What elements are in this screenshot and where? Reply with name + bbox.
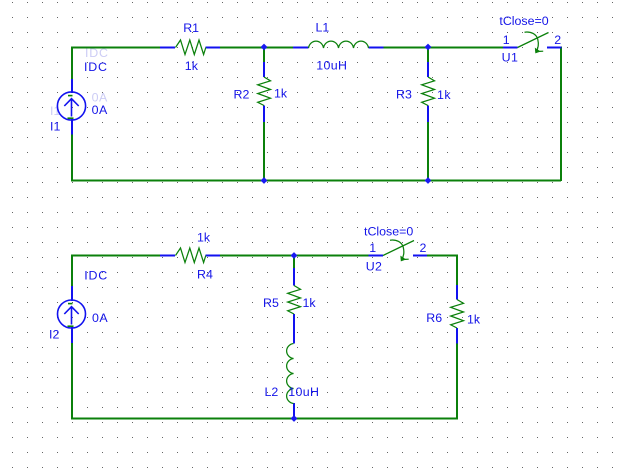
- svg-text:I2: I2: [49, 328, 59, 342]
- I2 minus tick: [68, 303, 73, 305]
- wire left vertical upper (corner to I2 top): [71, 255, 73, 287]
- svg-text:R6: R6: [426, 311, 442, 325]
- inductor L1: [293, 41, 384, 48]
- R5 pin stub bottom: [293, 314, 295, 329]
- junction node A (R2 top): [261, 44, 268, 51]
- U2 pin 2 stub: [413, 255, 427, 257]
- svg-text:IDC: IDC: [85, 46, 109, 60]
- L1 pin stub left: [293, 47, 309, 49]
- wire U2 pin 2 to right corner: [427, 255, 458, 257]
- U2 arrowhead dash: [405, 258, 409, 260]
- current source I1: [50, 79, 86, 135]
- R5 zigzag body: [288, 286, 301, 315]
- R6 pin stub bottom: [456, 328, 458, 344]
- wire R3 branch lower: [427, 121, 429, 181]
- U2 close-action arc: [390, 240, 404, 260]
- svg-text:tClose=0: tClose=0: [499, 14, 548, 28]
- resistor R4: [160, 248, 220, 263]
- svg-text:1k: 1k: [197, 231, 211, 245]
- wire left vertical lower (I1 bottom to bottom rail): [71, 134, 73, 182]
- U2 pin 1 stub: [369, 255, 384, 257]
- wire top-left horizontal (I2 to R4): [72, 255, 160, 257]
- R3 pin stub top: [427, 62, 429, 77]
- I2 arrow head chevron: [64, 307, 78, 314]
- svg-text:R4: R4: [197, 268, 213, 282]
- inductor L2: [287, 328, 294, 418]
- I1 body circle: [57, 92, 85, 120]
- svg-text:2: 2: [420, 241, 427, 255]
- wire right vertical lower (R6 bottom to bottom rail): [456, 343, 458, 420]
- R6 pin stub top: [456, 285, 458, 300]
- resistor R2: [258, 62, 271, 122]
- U1 pin 2 stub: [547, 47, 562, 49]
- wire right vertical upper (corner to R6 top): [456, 255, 458, 286]
- wire right vertical (U1 pin 2 down to bottom rail): [560, 47, 562, 182]
- current source I2: [58, 286, 86, 343]
- U1 pin 1 stub: [503, 47, 518, 49]
- R5 pin stub top: [293, 268, 295, 286]
- R2 zigzag body: [258, 77, 271, 106]
- L1 humps body: [309, 41, 369, 48]
- I1 minus tick: [68, 95, 73, 97]
- R1 zigzag body: [176, 40, 206, 55]
- I1 pin 2 stub (bottom): [71, 119, 73, 135]
- svg-text:1: 1: [503, 33, 510, 47]
- R3 zigzag body: [422, 77, 435, 106]
- I1 arrow head chevron: [64, 99, 78, 106]
- R3 pin stub bottom: [427, 106, 429, 123]
- I2 arrow shaft: [71, 307, 73, 325]
- U1 arc arrowhead: [535, 48, 540, 53]
- wire left vertical upper (I1 top to corner): [71, 47, 73, 80]
- resistor R1: [160, 40, 220, 55]
- svg-text:L1: L1: [316, 21, 330, 35]
- svg-text:U2: U2: [366, 260, 383, 274]
- junction node B (R3 top): [425, 44, 432, 51]
- wire R4 to U2 pin 1 (through node E): [220, 255, 369, 257]
- switch U2: [369, 240, 428, 261]
- I2 plus tick: [68, 325, 74, 327]
- R4 zigzag body: [176, 248, 206, 263]
- svg-text:R3: R3: [396, 88, 412, 102]
- wire top-left horizontal (node from I1 to R1): [72, 47, 160, 49]
- svg-text:10uH: 10uH: [288, 385, 319, 399]
- R6 zigzag body: [451, 300, 464, 329]
- svg-text:L2: L2: [265, 385, 279, 399]
- U1 close-action arc: [525, 32, 539, 52]
- R4 pin stub right: [206, 255, 221, 257]
- I1 pin 1 stub (top): [71, 79, 73, 93]
- svg-text:U1: U1: [502, 51, 519, 65]
- wire R2 branch upper stub: [263, 48, 265, 64]
- resistor R6: [451, 285, 464, 344]
- wire left vertical lower (I2 bottom to bottom rail): [71, 343, 73, 420]
- resistor R5: [288, 268, 301, 329]
- svg-text:I1: I1: [50, 119, 60, 133]
- wire L1 to U1 pin 1: [383, 47, 503, 49]
- junction node F (L2 bottom): [291, 415, 298, 422]
- svg-text:1k: 1k: [185, 59, 199, 73]
- R1 pin stub left: [160, 47, 175, 49]
- switch U1: [503, 32, 562, 53]
- R2 pin stub bottom: [263, 106, 265, 123]
- junction node D (R3 bottom): [425, 177, 432, 184]
- L2 pin stub top: [293, 328, 295, 344]
- wire R2 branch lower: [263, 121, 265, 181]
- svg-text:R5: R5: [263, 296, 279, 310]
- svg-text:1: 1: [369, 241, 376, 255]
- resistor R3: [422, 62, 435, 122]
- svg-text:IDC: IDC: [84, 268, 108, 282]
- wire R1 to L1 (through node A): [220, 47, 294, 49]
- wire bottom rail of bottom circuit: [71, 418, 457, 420]
- L2 pin stub bottom: [293, 403, 295, 418]
- I2 body circle: [58, 300, 86, 328]
- L2 humps body: [287, 344, 294, 404]
- svg-text:0A: 0A: [92, 103, 108, 117]
- svg-text:1k: 1k: [274, 87, 288, 101]
- svg-text:0A: 0A: [92, 311, 108, 325]
- wire R5 branch top stub: [293, 256, 295, 270]
- svg-text:R1: R1: [183, 21, 199, 35]
- svg-text:1k: 1k: [437, 88, 451, 102]
- R1 pin stub right: [206, 47, 221, 49]
- I2 pin 1 stub (top): [71, 286, 73, 301]
- U1 arrowhead dash: [540, 50, 544, 52]
- junction node E (R5 top): [291, 252, 298, 259]
- I1 arrow shaft: [71, 99, 73, 117]
- svg-text:tClose=0: tClose=0: [364, 224, 413, 238]
- svg-text:1k: 1k: [303, 296, 317, 310]
- U2 arc arrowhead: [401, 256, 406, 261]
- L1 pin stub right: [369, 47, 384, 49]
- svg-text:1k: 1k: [467, 313, 481, 327]
- R4 pin stub left: [160, 255, 175, 257]
- wire R3 branch upper stub: [427, 48, 429, 64]
- R2 pin stub top: [263, 62, 265, 77]
- svg-text:IDC: IDC: [84, 60, 108, 74]
- I2 pin 2 stub (bottom): [71, 327, 73, 343]
- U1 blade: [518, 33, 549, 48]
- svg-text:R2: R2: [234, 87, 250, 101]
- svg-text:2: 2: [554, 33, 561, 47]
- U2 blade: [383, 241, 414, 256]
- I1 plus tick: [68, 117, 74, 119]
- junction node C (R2 bottom): [261, 177, 268, 184]
- svg-text:10uH: 10uH: [316, 59, 347, 73]
- wire bottom rail of top circuit: [71, 180, 561, 182]
